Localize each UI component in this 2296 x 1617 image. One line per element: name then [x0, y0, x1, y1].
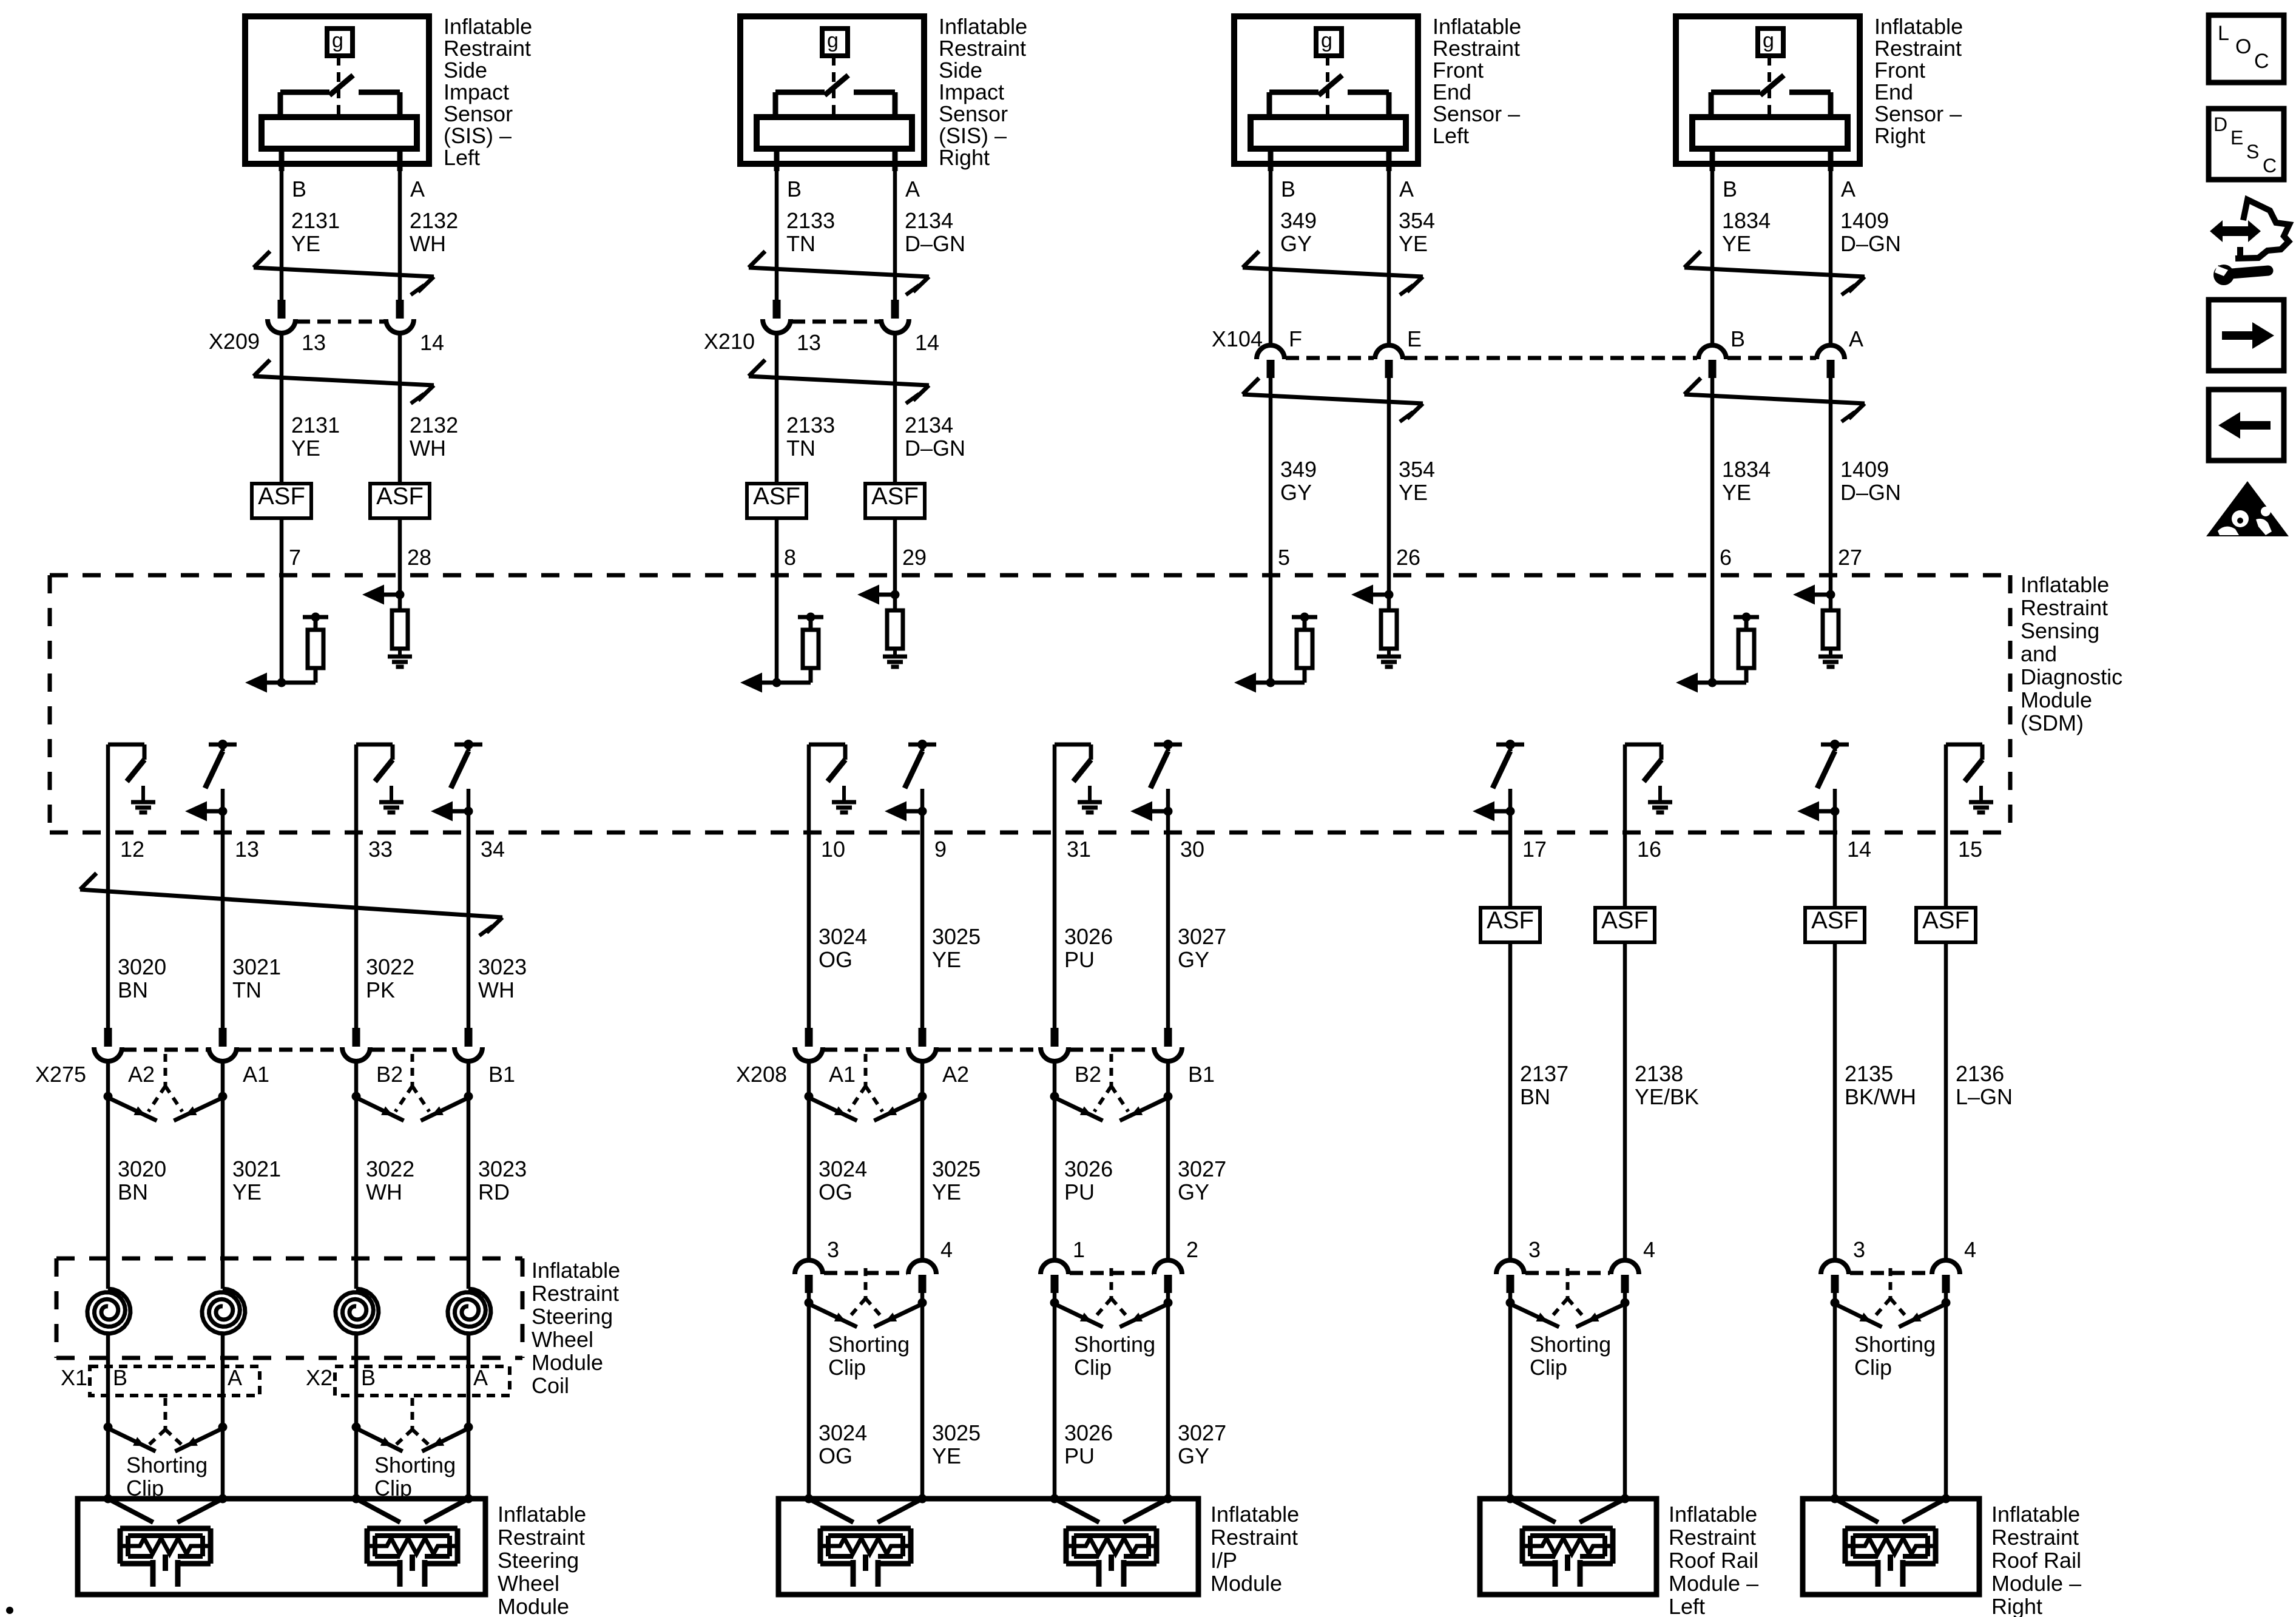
svg-text:Sensor –: Sensor –: [1433, 101, 1520, 126]
svg-text:YE: YE: [1399, 231, 1428, 256]
svg-text:6: 6: [1720, 545, 1732, 570]
svg-text:3: 3: [827, 1237, 839, 1262]
svg-text:PK: PK: [366, 977, 395, 1002]
svg-text:1834: 1834: [1722, 457, 1771, 482]
svg-text:D–GN: D–GN: [905, 436, 965, 461]
svg-text:Sensor: Sensor: [939, 101, 1008, 126]
svg-text:2: 2: [1186, 1237, 1198, 1262]
svg-text:Clip: Clip: [1854, 1355, 1892, 1380]
svg-text:2134: 2134: [905, 208, 953, 233]
svg-text:3027: 3027: [1178, 924, 1226, 949]
svg-text:1834: 1834: [1722, 208, 1771, 233]
svg-text:3025: 3025: [932, 1420, 981, 1445]
svg-text:BN: BN: [1520, 1084, 1550, 1109]
svg-text:Shorting: Shorting: [1074, 1332, 1155, 1357]
svg-text:31: 31: [1067, 837, 1091, 862]
svg-text:3024: 3024: [819, 1420, 867, 1445]
svg-text:28: 28: [407, 545, 431, 570]
svg-text:Inflatable: Inflatable: [939, 14, 1027, 39]
svg-text:2133: 2133: [786, 208, 835, 233]
svg-text:WH: WH: [478, 977, 515, 1002]
svg-text:Restraint: Restraint: [532, 1281, 619, 1306]
svg-text:14: 14: [1847, 837, 1871, 862]
svg-text:Inflatable: Inflatable: [1210, 1502, 1299, 1527]
svg-text:Inflatable: Inflatable: [2021, 572, 2109, 597]
svg-text:8: 8: [784, 545, 796, 570]
svg-text:X1: X1: [61, 1365, 87, 1390]
svg-text:3020: 3020: [118, 954, 166, 979]
svg-text:Restraint: Restraint: [1210, 1525, 1298, 1550]
svg-text:Sensor –: Sensor –: [1874, 101, 1962, 126]
svg-text:D–GN: D–GN: [1840, 480, 1901, 505]
svg-text:5: 5: [1278, 545, 1290, 570]
svg-text:B2: B2: [376, 1062, 403, 1087]
svg-text:10: 10: [821, 837, 845, 862]
svg-text:2133: 2133: [786, 413, 835, 437]
svg-text:A: A: [410, 177, 425, 201]
svg-text:A: A: [473, 1365, 488, 1390]
svg-text:(SDM): (SDM): [2021, 711, 2084, 735]
svg-text:ASF: ASF: [376, 483, 424, 510]
svg-text:1409: 1409: [1840, 457, 1889, 482]
svg-text:2138: 2138: [1635, 1061, 1683, 1086]
svg-text:2132: 2132: [410, 208, 458, 233]
svg-text:Clip: Clip: [828, 1355, 866, 1380]
svg-text:ASF: ASF: [1601, 907, 1649, 934]
svg-text:D–GN: D–GN: [905, 231, 965, 256]
svg-text:Inflatable: Inflatable: [1669, 1502, 1757, 1527]
svg-text:3025: 3025: [932, 924, 981, 949]
svg-text:Steering: Steering: [532, 1304, 613, 1329]
svg-text:Shorting: Shorting: [1854, 1332, 1936, 1357]
svg-text:Diagnostic: Diagnostic: [2021, 664, 2122, 689]
svg-text:GY: GY: [1178, 1443, 1209, 1468]
svg-text:D: D: [2213, 113, 2227, 135]
svg-text:g: g: [1763, 29, 1774, 52]
svg-text:3024: 3024: [819, 1156, 867, 1181]
svg-text:Module –: Module –: [1991, 1571, 2081, 1596]
svg-text:ASF: ASF: [1922, 907, 1970, 934]
svg-text:BK/WH: BK/WH: [1845, 1084, 1916, 1109]
svg-text:Side: Side: [444, 58, 487, 83]
svg-text:YE: YE: [291, 231, 320, 256]
svg-text:A1: A1: [243, 1062, 269, 1087]
svg-text:A: A: [1841, 177, 1855, 201]
svg-text:Module –: Module –: [1669, 1571, 1758, 1596]
svg-text:WH: WH: [366, 1180, 402, 1204]
svg-text:GY: GY: [1280, 480, 1312, 505]
svg-text:34: 34: [481, 837, 505, 862]
svg-text:B: B: [1281, 177, 1295, 201]
svg-text:A: A: [1399, 177, 1414, 201]
svg-text:Inflatable: Inflatable: [498, 1502, 586, 1527]
svg-text:C: C: [2263, 155, 2277, 177]
svg-text:X2: X2: [306, 1365, 333, 1390]
svg-text:Side: Side: [939, 58, 982, 83]
svg-text:X210: X210: [704, 329, 755, 354]
svg-text:F: F: [1289, 326, 1302, 351]
svg-text:g: g: [827, 29, 839, 52]
svg-text:WH: WH: [410, 436, 446, 461]
svg-text:Shorting: Shorting: [1530, 1332, 1611, 1357]
svg-text:Steering: Steering: [498, 1548, 579, 1573]
svg-text:4: 4: [1964, 1237, 1976, 1262]
svg-text:2131: 2131: [291, 208, 340, 233]
svg-text:3: 3: [1528, 1237, 1541, 1262]
svg-text:E: E: [2230, 127, 2243, 149]
svg-text:354: 354: [1399, 457, 1435, 482]
svg-text:BN: BN: [118, 977, 148, 1002]
svg-text:Shorting: Shorting: [126, 1453, 208, 1477]
svg-text:2135: 2135: [1845, 1061, 1893, 1086]
svg-text:30: 30: [1180, 837, 1204, 862]
svg-text:Clip: Clip: [1074, 1355, 1112, 1380]
svg-text:A1: A1: [829, 1062, 856, 1087]
svg-text:ASF: ASF: [1487, 907, 1534, 934]
svg-text:(SIS) –: (SIS) –: [444, 123, 512, 148]
svg-text:3026: 3026: [1064, 1420, 1113, 1445]
svg-text:YE: YE: [232, 1180, 262, 1204]
svg-text:Wheel: Wheel: [532, 1327, 593, 1352]
svg-text:3022: 3022: [366, 954, 414, 979]
svg-text:ASF: ASF: [1811, 907, 1859, 934]
svg-text:GY: GY: [1280, 231, 1312, 256]
svg-text:O: O: [2235, 35, 2251, 58]
svg-text:TN: TN: [786, 436, 815, 461]
svg-text:Module: Module: [1210, 1571, 1282, 1596]
svg-text:X209: X209: [209, 329, 260, 354]
svg-text:33: 33: [368, 837, 393, 862]
svg-text:Sensing: Sensing: [2021, 618, 2099, 643]
svg-text:Module: Module: [498, 1594, 569, 1617]
svg-text:13: 13: [302, 330, 326, 355]
svg-text:Left: Left: [1669, 1594, 1705, 1617]
svg-text:YE: YE: [1722, 231, 1751, 256]
svg-text:3027: 3027: [1178, 1420, 1226, 1445]
svg-text:2131: 2131: [291, 413, 340, 437]
svg-text:Module: Module: [2021, 687, 2092, 712]
svg-text:3020: 3020: [118, 1156, 166, 1181]
svg-text:A: A: [1849, 326, 1863, 351]
svg-text:4: 4: [940, 1237, 953, 1262]
svg-text:End: End: [1874, 79, 1913, 104]
svg-text:WH: WH: [410, 231, 446, 256]
svg-text:1: 1: [1073, 1237, 1085, 1262]
svg-text:Restraint: Restraint: [1874, 36, 1962, 61]
svg-text:2137: 2137: [1520, 1061, 1568, 1086]
svg-text:2136: 2136: [1956, 1061, 2004, 1086]
svg-text:Sensor: Sensor: [444, 101, 513, 126]
svg-text:4: 4: [1643, 1237, 1655, 1262]
svg-text:Inflatable: Inflatable: [1991, 1502, 2080, 1527]
svg-text:Inflatable: Inflatable: [444, 14, 532, 39]
svg-text:A: A: [228, 1365, 242, 1390]
svg-text:A: A: [905, 177, 920, 201]
svg-text:I/P: I/P: [1210, 1548, 1237, 1573]
svg-text:3021: 3021: [232, 954, 281, 979]
svg-text:Inflatable: Inflatable: [1433, 14, 1521, 39]
svg-text:YE: YE: [291, 436, 320, 461]
svg-text:Restraint: Restraint: [2021, 595, 2108, 620]
svg-text:(SIS) –: (SIS) –: [939, 123, 1007, 148]
svg-text:YE: YE: [1722, 480, 1751, 505]
svg-text:X104: X104: [1212, 326, 1263, 351]
svg-text:349: 349: [1280, 457, 1317, 482]
svg-text:14: 14: [915, 330, 939, 355]
svg-text:14: 14: [420, 330, 444, 355]
svg-text:A2: A2: [128, 1062, 155, 1087]
svg-text:B1: B1: [1188, 1062, 1215, 1087]
svg-text:Right: Right: [1991, 1594, 2042, 1617]
svg-text:3024: 3024: [819, 924, 867, 949]
svg-text:L: L: [2218, 22, 2229, 45]
svg-text:PU: PU: [1064, 1180, 1095, 1204]
svg-text:3023: 3023: [478, 1156, 527, 1181]
svg-text:Shorting: Shorting: [828, 1332, 910, 1357]
svg-text:g: g: [332, 29, 343, 52]
svg-text:2132: 2132: [410, 413, 458, 437]
svg-text:354: 354: [1399, 208, 1435, 233]
svg-text:Left: Left: [444, 145, 480, 170]
svg-text:Front: Front: [1874, 58, 1925, 83]
svg-text:OG: OG: [819, 1443, 853, 1468]
svg-text:B: B: [113, 1365, 127, 1390]
svg-text:BN: BN: [118, 1180, 148, 1204]
svg-text:9: 9: [934, 837, 947, 862]
svg-text:End: End: [1433, 79, 1471, 104]
svg-text:Right: Right: [1874, 123, 1925, 148]
svg-text:3026: 3026: [1064, 1156, 1113, 1181]
svg-text:Clip: Clip: [1530, 1355, 1567, 1380]
svg-text:Right: Right: [939, 145, 990, 170]
svg-text:TN: TN: [786, 231, 815, 256]
svg-text:YE/BK: YE/BK: [1635, 1084, 1699, 1109]
svg-text:Impact: Impact: [444, 79, 509, 104]
svg-text:L–GN: L–GN: [1956, 1084, 2013, 1109]
svg-text:26: 26: [1396, 545, 1420, 570]
svg-text:Restraint: Restraint: [444, 36, 531, 61]
svg-text:YE: YE: [932, 947, 961, 972]
svg-text:12: 12: [120, 837, 144, 862]
svg-text:16: 16: [1637, 837, 1661, 862]
svg-text:349: 349: [1280, 208, 1317, 233]
svg-text:Restraint: Restraint: [498, 1525, 585, 1550]
svg-text:Roof Rail: Roof Rail: [1991, 1548, 2081, 1573]
svg-text:E: E: [1407, 326, 1422, 351]
svg-text:1409: 1409: [1840, 208, 1889, 233]
svg-text:ASF: ASF: [258, 483, 305, 510]
svg-text:OG: OG: [819, 1180, 853, 1204]
svg-text:YE: YE: [1399, 480, 1428, 505]
svg-text:YE: YE: [932, 1180, 961, 1204]
svg-text:PU: PU: [1064, 947, 1095, 972]
svg-text:Restraint: Restraint: [939, 36, 1026, 61]
svg-text:13: 13: [797, 330, 821, 355]
svg-text:g: g: [1321, 29, 1332, 52]
svg-text:S: S: [2246, 141, 2259, 163]
svg-text:B2: B2: [1075, 1062, 1101, 1087]
svg-text:3023: 3023: [478, 954, 527, 979]
svg-text:3025: 3025: [932, 1156, 981, 1181]
svg-text:3027: 3027: [1178, 1156, 1226, 1181]
svg-text:TN: TN: [232, 977, 262, 1002]
svg-text:Inflatable: Inflatable: [532, 1258, 620, 1283]
svg-text:Restraint: Restraint: [1669, 1525, 1756, 1550]
svg-text:Restraint: Restraint: [1991, 1525, 2079, 1550]
svg-text:Restraint: Restraint: [1433, 36, 1520, 61]
svg-text:Shorting: Shorting: [374, 1453, 456, 1477]
svg-text:27: 27: [1838, 545, 1862, 570]
svg-text:B: B: [1723, 177, 1737, 201]
svg-text:Wheel: Wheel: [498, 1571, 559, 1596]
svg-text:17: 17: [1522, 837, 1547, 862]
svg-text:B: B: [361, 1365, 376, 1390]
svg-text:13: 13: [235, 837, 259, 862]
svg-text:Left: Left: [1433, 123, 1469, 148]
svg-text:ASF: ASF: [753, 483, 800, 510]
svg-text:D–GN: D–GN: [1840, 231, 1901, 256]
svg-text:3022: 3022: [366, 1156, 414, 1181]
svg-text:2134: 2134: [905, 413, 953, 437]
svg-text:GY: GY: [1178, 1180, 1209, 1204]
svg-text:A2: A2: [942, 1062, 969, 1087]
svg-text:ASF: ASF: [871, 483, 919, 510]
svg-text:15: 15: [1958, 837, 1982, 862]
svg-text:3021: 3021: [232, 1156, 281, 1181]
svg-text:GY: GY: [1178, 947, 1209, 972]
svg-text:OG: OG: [819, 947, 853, 972]
svg-text:B: B: [292, 177, 306, 201]
svg-text:YE: YE: [932, 1443, 961, 1468]
svg-text:3: 3: [1853, 1237, 1865, 1262]
svg-text:Roof Rail: Roof Rail: [1669, 1548, 1758, 1573]
svg-text:Inflatable: Inflatable: [1874, 14, 1963, 39]
svg-text:Module: Module: [532, 1350, 603, 1375]
svg-text:B1: B1: [488, 1062, 515, 1087]
svg-text:3026: 3026: [1064, 924, 1113, 949]
svg-text:B: B: [787, 177, 802, 201]
svg-text:RD: RD: [478, 1180, 510, 1204]
svg-text:and: and: [2021, 641, 2057, 666]
svg-text:Front: Front: [1433, 58, 1484, 83]
svg-text:X208: X208: [736, 1062, 787, 1087]
svg-text:PU: PU: [1064, 1443, 1095, 1468]
svg-text:Coil: Coil: [532, 1373, 569, 1398]
svg-text:X275: X275: [35, 1062, 86, 1087]
svg-text:7: 7: [289, 545, 301, 570]
svg-text:B: B: [1730, 326, 1745, 351]
svg-text:C: C: [2254, 50, 2269, 73]
svg-text:Impact: Impact: [939, 79, 1004, 104]
svg-text:29: 29: [902, 545, 927, 570]
